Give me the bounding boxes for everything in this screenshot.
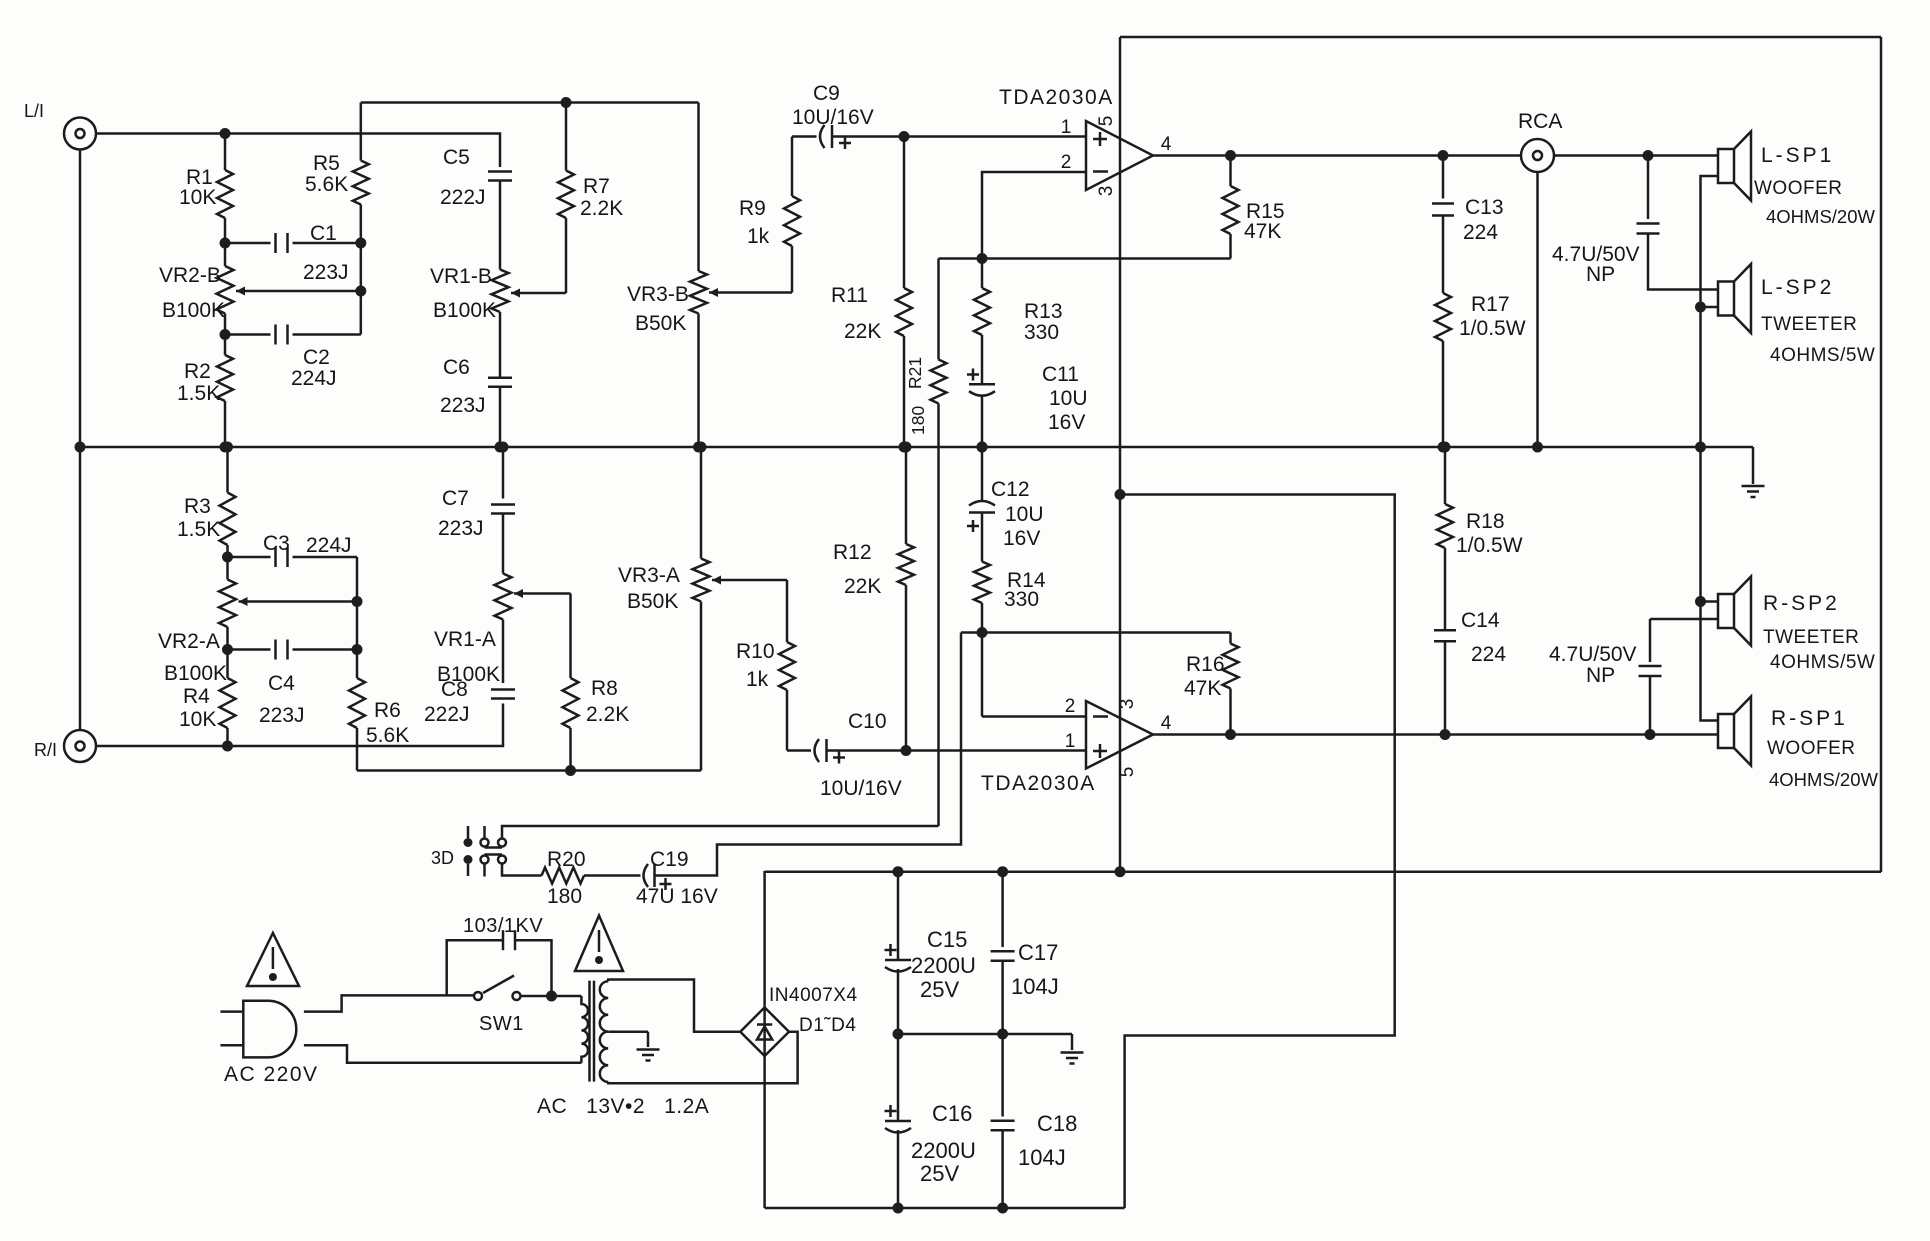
capacitor C10 10U/16V electrolytic (787, 749, 811, 752)
svg-text:TDA2030A: TDA2030A (981, 772, 1096, 795)
svg-text:16V: 16V (1003, 527, 1040, 550)
junction: VR2-A wiper on R6 column (352, 596, 363, 607)
junction: VR2-B wiper on R5 column (355, 286, 366, 297)
svg-text:C17: C17 (1018, 940, 1058, 965)
svg-text:B100K: B100K (433, 299, 496, 322)
resistor R21 180 (3D coupling, top) (937, 259, 940, 360)
junction: C10 to R12 / pin1 row (bottom) (901, 745, 912, 756)
svg-text:330: 330 (1004, 588, 1039, 611)
wire: VR1-A to C8 (502, 620, 505, 684)
resistor R13 330 (981, 259, 984, 289)
svg-text:223J: 223J (303, 261, 349, 284)
wire: L tweeter return stub (1701, 306, 1719, 309)
svg-text:C16: C16 (932, 1101, 972, 1126)
capacitor C18 104J (1001, 1034, 1004, 1117)
speaker L-SP2 TWEETER (1718, 282, 1734, 316)
wire: L/R input shield column (79, 150, 82, 730)
svg-text:R/I: R/I (34, 740, 57, 760)
wire: R20 to C19 (584, 874, 641, 877)
svg-text:SW1: SW1 (479, 1013, 524, 1035)
potentiometer VR1-B B100K (mid, left) (492, 270, 509, 313)
svg-text:WOOFER: WOOFER (1767, 738, 1856, 759)
switch 3D (lower pole) (464, 855, 473, 864)
bridge rectifier D1-D4 IN4007X4 (740, 1007, 789, 1056)
capacitor C19 47U 16V electrolytic (644, 864, 649, 887)
junction: C17 top on +V rail (997, 866, 1008, 877)
svg-text:3D: 3D (431, 848, 454, 868)
junction: L/I row at R1 (220, 128, 231, 139)
junction: output at C13 (1438, 150, 1449, 161)
svg-text:D1˜D4: D1˜D4 (799, 1015, 856, 1036)
resistor R18 1/0.5W (1444, 447, 1447, 504)
svg-text:C11: C11 (1042, 363, 1079, 386)
svg-text:1/0.5W: 1/0.5W (1459, 317, 1526, 340)
svg-text:5: 5 (1096, 116, 1117, 127)
capacitor C3 224J (274, 547, 277, 567)
svg-text:R8: R8 (591, 677, 618, 700)
junction: VR3-B bottom on bus (693, 442, 704, 453)
svg-text:224: 224 (1463, 221, 1498, 244)
svg-text:R3: R3 (184, 495, 211, 518)
svg-text:3: 3 (1096, 186, 1117, 197)
svg-text:NP: NP (1586, 263, 1615, 286)
op-amp U1 TDA2030A (left channel) (1086, 121, 1153, 190)
wire: R/I input row (97, 704, 504, 747)
capacitor C5 222J (488, 170, 512, 173)
junction: R tweeter return (1695, 596, 1706, 607)
svg-text:C8: C8 (441, 678, 468, 701)
wire: -V rail (bottom) (765, 1207, 1125, 1210)
wire: plug live to switch SW1 (304, 995, 474, 1011)
wire: top row R5/R7/VR3-B (y=102.5) (361, 101, 699, 104)
svg-text:R18: R18 (1466, 510, 1505, 533)
junction: VR2-A bottom / C4 row (222, 644, 233, 655)
wiper of VR1-B (511, 292, 566, 295)
wire: supply column through both amps (pin5/pin3) (1119, 37, 1122, 872)
wire: top amp output row (1153, 154, 1521, 157)
wire: 3D lower pole to R20 (502, 864, 542, 876)
svg-text:R10: R10 (736, 640, 775, 663)
svg-text:TWEETER: TWEETER (1763, 627, 1859, 648)
wire: C3 row (228, 556, 271, 559)
junction: input shield to bus (75, 442, 86, 453)
svg-text:VR2-B: VR2-B (159, 264, 221, 287)
resistor R3 1.5K (226, 447, 229, 493)
resistor R17 1/0.5W (1442, 216, 1445, 294)
wire: bottom amp output row (1153, 733, 1718, 736)
wire: R5 column (C2 to R5) (360, 205, 363, 335)
wire: bridge - to -V rail (763, 1056, 766, 1208)
svg-text:C18: C18 (1037, 1111, 1077, 1136)
wire: pin 2 riser and row (bottom amp) (981, 633, 984, 717)
svg-text:22K: 22K (844, 575, 881, 598)
wire: snubber branch (103/1KV across SW1) (447, 940, 503, 995)
junction: snubber at primary (546, 991, 557, 1002)
capacitor C11 10U 16V electrolytic (969, 383, 995, 386)
capacitor C15 2200U 25V electrolytic (897, 872, 900, 960)
capacitor C7 223J (502, 447, 505, 499)
svg-text:2200U: 2200U (911, 953, 976, 978)
wire: pin 1 row of bottom TDA2030A (906, 749, 1086, 752)
resistor R15 47K (1229, 156, 1232, 187)
svg-text:47K: 47K (1184, 677, 1221, 700)
junction: R12 top on bus (901, 442, 912, 453)
junction: R1 bottom / C1 row (220, 238, 231, 249)
junction: VR2-B bottom / C2 row (220, 329, 231, 340)
svg-text:10U/16V: 10U/16V (820, 777, 902, 800)
svg-text:IN4007X4: IN4007X4 (769, 985, 858, 1006)
svg-text:223J: 223J (259, 704, 305, 727)
capacitor C13 224 (1442, 156, 1445, 199)
resistor R6 5.6K (356, 650, 359, 679)
capacitor C4 223J (274, 640, 277, 660)
svg-text:10U: 10U (1049, 387, 1088, 410)
svg-text:2: 2 (1061, 152, 1072, 173)
svg-text:C15: C15 (927, 927, 967, 952)
svg-text:4OHMS/20W: 4OHMS/20W (1769, 769, 1879, 790)
svg-text:47U 16V: 47U 16V (636, 885, 718, 908)
svg-text:AC 220V: AC 220V (224, 1063, 319, 1086)
svg-text:2.2K: 2.2K (580, 197, 623, 220)
svg-text:VR1-B: VR1-B (430, 265, 492, 288)
svg-text:1k: 1k (747, 225, 770, 248)
junction: feedback row at R13 (977, 253, 988, 264)
speaker R-SP1 WOOFER (1718, 714, 1734, 748)
svg-text:C4: C4 (268, 672, 295, 695)
capacitor 4.7U/50V NP (left crossover) (1647, 156, 1650, 220)
resistor R5 5.6K (353, 161, 369, 205)
junction: C14 bottom on output row (1440, 729, 1451, 740)
svg-text:C2: C2 (303, 346, 330, 369)
svg-text:R20: R20 (547, 848, 586, 871)
svg-text:223J: 223J (438, 517, 484, 540)
svg-text:10K: 10K (179, 708, 216, 731)
wire: R6 column top (C3 to wiper row) (356, 557, 359, 650)
svg-text:R12: R12 (833, 541, 872, 564)
junction: L tweeter return (1695, 302, 1706, 313)
speaker L-SP1 WOOFER (1718, 149, 1734, 183)
wire: bottom row R6/R8/VR3-A (y=770.5) (357, 769, 701, 772)
svg-text:222J: 222J (440, 186, 486, 209)
svg-text:4: 4 (1161, 134, 1172, 155)
ground symbol (power 0V) (1071, 1034, 1074, 1050)
svg-text:2.2K: 2.2K (586, 703, 629, 726)
svg-text:10U/16V: 10U/16V (792, 106, 874, 129)
wire: SW1 to transformer primary (521, 995, 582, 998)
svg-text:R2: R2 (184, 360, 211, 383)
wire: RCA shield to bus (1536, 172, 1539, 447)
wire: 0V mid rail (898, 1033, 1072, 1036)
svg-text:R7: R7 (583, 175, 610, 198)
svg-text:C5: C5 (443, 146, 470, 169)
svg-text:104J: 104J (1018, 1145, 1066, 1170)
svg-text:1/0.5W: 1/0.5W (1456, 534, 1523, 557)
junction: R17 bottom on bus (1438, 442, 1449, 453)
svg-text:RCA: RCA (1518, 110, 1562, 133)
svg-text:330: 330 (1024, 321, 1059, 344)
svg-text:C14: C14 (1461, 609, 1500, 632)
junction: C15 bottom on 0V rail (893, 1029, 904, 1040)
junction: C7 top on bus (498, 442, 509, 453)
wire: C5 to VR1-B (499, 181, 502, 270)
wire: +V top rail (1120, 36, 1881, 39)
wiper of VR2-B (236, 290, 361, 293)
capacitor C6 223J (488, 377, 512, 380)
svg-text:223J: 223J (440, 394, 486, 417)
potentiometer VR3-A B50K (volume, right) (700, 447, 703, 559)
svg-text:VR3-B: VR3-B (627, 283, 689, 306)
svg-text:NP: NP (1586, 664, 1615, 687)
transformer T1 primary winding (581, 996, 588, 1063)
junction: C6 bottom on bus (495, 442, 506, 453)
warning triangle (mains) (247, 933, 299, 986)
connector RCA (output jack) (1521, 139, 1554, 172)
wire: C19 to bottom feedback row (655, 633, 962, 876)
svg-text:222J: 222J (424, 703, 470, 726)
connector R/I (RCA input jack) (64, 730, 96, 762)
capacitor C16 2200U 25V electrolytic (897, 1034, 900, 1121)
svg-text:B50K: B50K (635, 312, 686, 335)
wire: top feedback row (pin2 net) (939, 257, 1231, 260)
switch 3D (upper pole) (467, 826, 470, 838)
junction: output at crossover cap (left) (1643, 150, 1654, 161)
svg-text:C9: C9 (813, 82, 840, 105)
svg-text:B100K: B100K (162, 299, 225, 322)
wiper of VR3-A (712, 579, 787, 582)
svg-text:180: 180 (908, 406, 928, 435)
svg-text:1: 1 (1061, 117, 1072, 138)
junction: bottom row at R8 (565, 765, 576, 776)
resistor R8 2.2K (569, 594, 572, 679)
svg-text:R5: R5 (313, 152, 340, 175)
svg-text:C3: C3 (263, 532, 290, 555)
svg-text:180: 180 (547, 885, 582, 908)
svg-text:2: 2 (1065, 696, 1076, 717)
svg-text:224J: 224J (306, 534, 352, 557)
transformer T1 core (588, 981, 591, 1082)
junction: C16 bottom on -V rail (893, 1203, 904, 1214)
junction: C17 bottom on 0V rail (997, 1029, 1008, 1040)
svg-text:C13: C13 (1465, 196, 1504, 219)
junction: supply column pin5 on +V rail (1115, 866, 1126, 877)
wire: bridge + to +V rail (763, 871, 766, 1007)
resistor R14 330 (974, 562, 990, 604)
svg-text:L/I: L/I (24, 101, 44, 121)
svg-text:1.5K: 1.5K (177, 518, 220, 541)
svg-text:1.5K: 1.5K (177, 382, 220, 405)
capacitor C8 222J (491, 688, 515, 691)
svg-text:C1: C1 (310, 222, 337, 245)
svg-text:C12: C12 (991, 478, 1030, 501)
capacitor C17 104J (1001, 872, 1004, 947)
potentiometer VR3-B B50K (volume, left) (697, 103, 700, 272)
svg-text:224: 224 (1471, 643, 1506, 666)
svg-text:R4: R4 (183, 685, 210, 708)
junction: feedback row at R14 (977, 627, 988, 638)
wiper of VR2-A (239, 600, 358, 603)
capacitor C12 10U 16V electrolytic (981, 447, 984, 502)
wire: secondary top to bridge AC1 (608, 980, 740, 1032)
wiper of VR3-B (709, 291, 792, 294)
svg-text:16V: 16V (1048, 411, 1085, 434)
svg-text:R11: R11 (831, 284, 868, 307)
wire: C4 row (228, 648, 271, 651)
svg-text:224J: 224J (291, 367, 337, 390)
resistor R11 22K (903, 137, 906, 289)
svg-text:1k: 1k (746, 668, 769, 691)
svg-text:4OHMS/20W: 4OHMS/20W (1766, 206, 1876, 227)
svg-text:5: 5 (1117, 767, 1138, 778)
svg-text:22K: 22K (844, 320, 881, 343)
junction: C15 top on +V rail (893, 866, 904, 877)
wire: L/I input row to C5 (97, 134, 501, 168)
svg-text:L-SP1: L-SP1 (1761, 144, 1834, 167)
wire: R tweeter return stub (1701, 600, 1719, 603)
wire: bottom feedback row (pin2 net) (961, 631, 1231, 634)
ground symbol (signal bus) (1752, 447, 1755, 484)
wire: 3D upper pole to R21 (502, 826, 939, 839)
junction: C12 top on bus (977, 442, 988, 453)
wire: plug neutral to transformer (304, 1045, 582, 1063)
resistor R1 10K (224, 134, 227, 171)
wire: R tweeter to crossover cap (1650, 618, 1718, 621)
resistor R2 1.5K (224, 335, 227, 356)
junction: output at R15 (1225, 150, 1236, 161)
wire: +V right border (1880, 37, 1883, 872)
potentiometer VR1-A B100K (mid, right) (495, 574, 512, 620)
capacitor C14 224 (1434, 629, 1456, 632)
svg-text:VR1-A: VR1-A (434, 628, 496, 651)
svg-text:5.6K: 5.6K (305, 173, 348, 196)
svg-text:R-SP1: R-SP1 (1771, 707, 1848, 730)
wire: secondary center tap (608, 1030, 648, 1033)
wire: VR1-B to C6 (499, 312, 502, 378)
wire: +V rail (bottom) (765, 870, 1881, 873)
svg-text:TDA2030A: TDA2030A (999, 86, 1114, 109)
svg-text:47K: 47K (1244, 220, 1281, 243)
junction: R18 top on bus (1440, 442, 1451, 453)
potentiometer VR2-A B100K (bass, right) (226, 557, 229, 580)
junction: RCA shield on bus (1532, 442, 1543, 453)
junction: C18 bottom on -V rail (997, 1203, 1008, 1214)
junction: R/I row at R4 (222, 741, 233, 752)
wire: C6 to bus (499, 387, 502, 447)
junction: VR3-A top on bus (696, 442, 707, 453)
svg-text:5.6K: 5.6K (366, 724, 409, 747)
resistor R4 10K (226, 650, 229, 679)
junction: output at crossover cap (right) (1645, 729, 1656, 740)
wire: C1 row (225, 242, 271, 245)
speaker R-SP2 TWEETER (1718, 594, 1734, 628)
connector L/I (RCA input jack) (64, 118, 96, 150)
junction: C9 to R11 / pin1 row (899, 131, 910, 142)
switch SW1 (474, 992, 482, 1000)
junction: output at R16 (1225, 729, 1236, 740)
svg-text:1: 1 (1065, 731, 1076, 752)
svg-text:C7: C7 (442, 487, 469, 510)
svg-text:4: 4 (1161, 713, 1172, 734)
junction: C1 right on R5 column (355, 238, 366, 249)
svg-text:4OHMS/5W: 4OHMS/5W (1770, 345, 1875, 366)
junction: C4 right on R6 column (352, 644, 363, 655)
svg-text:WOOFER: WOOFER (1754, 178, 1843, 199)
svg-text:C6: C6 (443, 356, 470, 379)
svg-text:B100K: B100K (164, 662, 227, 685)
resistor R20 180 (542, 868, 585, 884)
capacitor 4.7U/50V NP (right crossover) (1649, 619, 1652, 662)
svg-text:4.7U/50V: 4.7U/50V (1549, 643, 1637, 666)
svg-text:104J: 104J (1011, 974, 1059, 999)
junction: pin3 node to -V branch (1115, 489, 1126, 500)
junction: R3 bottom / C3 row (222, 552, 233, 563)
svg-text:R13: R13 (1024, 300, 1063, 323)
resistor R10 1k (786, 580, 789, 642)
potentiometer VR2-B B100K (bass, left) (224, 243, 227, 266)
svg-text:R17: R17 (1471, 293, 1510, 316)
wire: -V feed to amplifiers (pin3) (1120, 495, 1395, 1209)
wiper of VR1-A (514, 592, 571, 595)
svg-text:R9: R9 (739, 197, 766, 220)
capacitor 103/1KV snubber (502, 930, 505, 950)
svg-text:B50K: B50K (627, 590, 678, 613)
ground symbol (transformer center tap) (647, 1032, 650, 1047)
resistor R12 22K (905, 447, 908, 544)
wire: C2 row (225, 333, 271, 336)
junction: R3 top on bus (222, 442, 233, 453)
wire: speaker return column (left+right) (1701, 176, 1719, 721)
junction: top row at R7 (561, 97, 572, 108)
svg-text:VR2-A: VR2-A (158, 630, 220, 653)
svg-text:2200U: 2200U (911, 1138, 976, 1163)
wire: secondary bottom to bridge AC2 (608, 1032, 797, 1084)
svg-text:3: 3 (1117, 699, 1138, 710)
svg-text:R16: R16 (1186, 653, 1225, 676)
op-amp U2 TDA2030A (right channel) (1086, 701, 1153, 769)
svg-text:TWEETER: TWEETER (1761, 314, 1857, 335)
node: signal ground bus (0V) (80, 446, 1753, 449)
resistor R9 1k (791, 246, 794, 293)
capacitor C1 223J (274, 233, 277, 253)
junction: C11 bottom on bus (977, 442, 988, 453)
resistor R16 47K (1229, 633, 1232, 644)
svg-text:103/1KV: 103/1KV (463, 915, 543, 937)
svg-text:R21: R21 (905, 357, 925, 389)
svg-text:4OHMS/5W: 4OHMS/5W (1770, 652, 1875, 673)
svg-text:C19: C19 (650, 848, 689, 871)
svg-text:VR3-A: VR3-A (618, 564, 680, 587)
svg-text:AC 13V•2 1.2A: AC 13V•2 1.2A (537, 1095, 709, 1118)
svg-text:25V: 25V (920, 1161, 959, 1186)
wire: pin 2 riser and row (top amp) (982, 172, 1086, 259)
svg-text:10K: 10K (179, 186, 216, 209)
junction: R11 bottom on bus (899, 442, 910, 453)
transformer T1 secondary winding (600, 981, 608, 1082)
connector AC plug (243, 1001, 296, 1058)
capacitor C9 10U/16V electrolytic (792, 135, 817, 138)
resistor R7 2.2K (565, 103, 568, 171)
wire: C7 to VR1-A (502, 514, 505, 574)
warning triangle (transformer) (575, 916, 623, 972)
svg-text:R6: R6 (374, 699, 401, 722)
wire: pin 1 row of top TDA2030A (904, 135, 1086, 138)
junction: speaker return on bus (1695, 442, 1706, 453)
svg-text:10U: 10U (1005, 503, 1044, 526)
junction: R2 bottom on bus (220, 442, 231, 453)
svg-text:R-SP2: R-SP2 (1763, 592, 1840, 615)
svg-text:25V: 25V (920, 977, 959, 1002)
svg-text:C10: C10 (848, 710, 887, 733)
svg-text:L-SP2: L-SP2 (1761, 276, 1834, 299)
